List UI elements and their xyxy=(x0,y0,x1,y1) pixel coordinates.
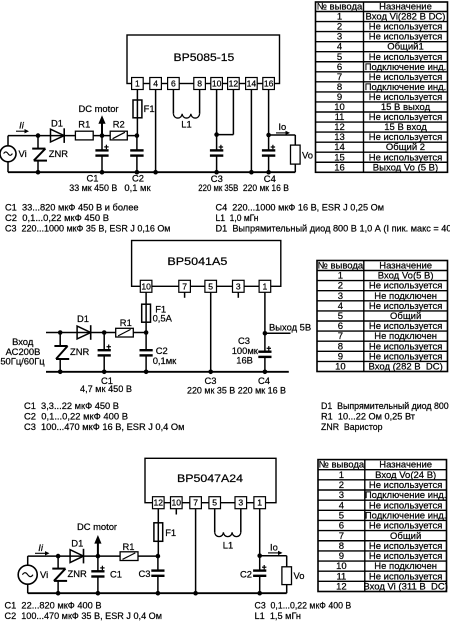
svg-text:7: 7 xyxy=(182,281,187,291)
label C1 circuit2 xyxy=(101,375,113,386)
svg-text:L1: L1 xyxy=(181,118,191,129)
svg-text:10: 10 xyxy=(335,362,346,373)
resistor R2 xyxy=(110,119,127,140)
svg-text:C1 33...820 мкФ 450 В и более: C1 33...820 мкФ 450 В и более xyxy=(5,202,139,213)
svg-text:L1 1,0 мГн: L1 1,0 мГн xyxy=(216,212,259,223)
node C1 bottom xyxy=(100,170,105,175)
node output circuit3 xyxy=(257,553,262,558)
pin 3 xyxy=(235,497,247,509)
svg-text:DC motor: DC motor xyxy=(77,521,117,532)
text ZNR spec circuit2 xyxy=(321,421,383,432)
capacitor C2 circuit2 xyxy=(140,333,153,372)
node output circuit2 xyxy=(263,331,268,336)
svg-text:Io: Io xyxy=(278,121,286,132)
resistor load Vo circuit1 xyxy=(291,145,313,172)
node output cap bottom circuit2 xyxy=(263,370,268,375)
svg-text:C1: C1 xyxy=(110,569,122,580)
text C1 spec circuit1 xyxy=(5,202,139,213)
svg-text:L1: L1 xyxy=(223,540,233,551)
pin 6 xyxy=(168,78,180,90)
wire R1 to junction xyxy=(133,332,146,334)
svg-text:1: 1 xyxy=(135,79,140,89)
svg-text:5: 5 xyxy=(208,281,213,291)
svg-text:3: 3 xyxy=(236,281,241,291)
pin 4 xyxy=(150,78,162,90)
svg-text:D1: D1 xyxy=(77,313,89,324)
wire top bus circuit1 xyxy=(8,135,137,137)
wire pin10 stub circuit3 xyxy=(175,509,177,515)
node ZNR top circuit3 xyxy=(56,554,61,559)
pin 1 xyxy=(132,78,144,90)
svg-text:0,1мк: 0,1мк xyxy=(153,355,177,366)
label C3 circuit2 xyxy=(238,335,250,346)
ac source Vi circuit3 xyxy=(18,565,48,584)
svg-text:Вход Vi (311 В DC): Вход Vi (311 В DC) xyxy=(363,582,448,593)
svg-text:10: 10 xyxy=(141,281,151,291)
label Ii input current arrow xyxy=(16,120,29,134)
svg-text:8: 8 xyxy=(197,79,202,89)
wire Vi top lead xyxy=(7,136,9,147)
svg-text:16: 16 xyxy=(264,79,274,89)
capacitor C2 xyxy=(130,136,143,173)
value C4 220mk16V xyxy=(243,182,289,193)
value C1 circuit2 xyxy=(80,383,132,394)
pin 16 xyxy=(263,78,275,90)
node ZNR bottom xyxy=(36,170,41,175)
text C1 spec circuit3 xyxy=(5,599,102,610)
pin 10 xyxy=(171,497,183,509)
node C1 bottom circuit2 xyxy=(102,370,107,375)
pin 8 xyxy=(194,78,206,90)
inductor L1 circuit3 xyxy=(215,509,241,551)
svg-text:220 мк 35В: 220 мк 35В xyxy=(198,182,238,193)
dc motor arrow xyxy=(78,103,118,135)
svg-text:R1: R1 xyxy=(78,119,90,130)
node ZNR top xyxy=(36,133,41,138)
svg-text:C2 0,1...0,22 мкФ 400 В: C2 0,1...0,22 мкФ 400 В xyxy=(24,411,128,422)
svg-text:C3: C3 xyxy=(139,568,151,579)
svg-text:ZNR: ZNR xyxy=(68,568,87,579)
capacitor C3 circuit3 xyxy=(151,556,164,593)
text C2 spec circuit1 xyxy=(5,212,109,223)
capacitor C1 xyxy=(95,136,108,173)
svg-text:F1: F1 xyxy=(144,103,155,114)
svg-text:4: 4 xyxy=(153,79,158,89)
value C2 circuit2 xyxy=(153,355,177,366)
svg-text:220 мк 16 В: 220 мк 16 В xyxy=(243,182,289,193)
svg-text:D1: D1 xyxy=(51,117,63,128)
node motor junction xyxy=(100,133,105,138)
capacitor C1 circuit3 xyxy=(91,556,104,593)
wire top bus circuit3 xyxy=(28,555,120,557)
dc motor arrow circuit3 xyxy=(77,521,117,556)
node R2-F1-C2 junction xyxy=(135,133,140,138)
node ZNR bottom circuit2 xyxy=(58,370,63,375)
pin 3 xyxy=(233,280,245,292)
pin 7 xyxy=(190,497,202,509)
text D1 spec circuit1 xyxy=(216,222,450,233)
svg-text:6: 6 xyxy=(171,79,176,89)
label output 5V circuit2 xyxy=(269,321,311,332)
svg-text:0,5А: 0,5А xyxy=(153,313,173,324)
svg-text:R1 10...22 Ом 0,25 Вт: R1 10...22 Ом 0,25 Вт xyxy=(321,411,416,422)
caption values circuit2 xyxy=(187,384,286,395)
svg-text:0,1 мк: 0,1 мк xyxy=(124,182,151,193)
svg-text:16В: 16В xyxy=(236,354,253,365)
svg-text:C2 0,1...0,22 мкФ 450 В: C2 0,1...0,22 мкФ 450 В xyxy=(5,212,109,223)
svg-text:ZNR Варистор: ZNR Варистор xyxy=(321,421,383,432)
wire top bus circuit2 left xyxy=(46,332,116,334)
wire output to load circuit3 xyxy=(260,556,287,567)
resistor R1 circuit2 xyxy=(116,317,134,337)
node pin14 ground xyxy=(249,170,254,175)
IC body BP5041A5 xyxy=(132,241,281,287)
text C3 spec circuit1 xyxy=(5,222,171,233)
wire Vi bottom lead circuit3 xyxy=(27,584,29,593)
node F1-R1-C3 junction circuit3 xyxy=(156,554,161,559)
pin 14 xyxy=(246,78,258,90)
wire bottom rail circuit2 xyxy=(46,371,289,373)
node ZNR bottom circuit3 xyxy=(56,591,61,596)
wire output stub circuit2 xyxy=(265,332,291,334)
pin 10 xyxy=(140,280,152,292)
svg-text:Vi: Vi xyxy=(40,569,48,580)
text L1 spec circuit3 xyxy=(255,610,302,621)
wire pin3 stub circuit2 xyxy=(237,292,239,298)
inductor L1 xyxy=(173,90,199,130)
svg-text:14: 14 xyxy=(247,79,257,89)
node ZNR top circuit2 xyxy=(58,330,63,335)
svg-text:3: 3 xyxy=(238,498,243,508)
svg-text:10: 10 xyxy=(212,79,222,89)
label input line3 xyxy=(0,355,45,366)
svg-text:1: 1 xyxy=(263,281,268,291)
text C4 spec circuit1 xyxy=(216,202,385,213)
svg-text:D1: D1 xyxy=(71,538,83,549)
svg-text:DC motor: DC motor xyxy=(78,103,118,114)
pin 12 xyxy=(228,78,240,90)
pin 12 xyxy=(153,497,165,509)
node pin7 ground circuit3 xyxy=(193,591,198,596)
label Io arrow circuit3 xyxy=(268,541,283,555)
table pin functions BP5085-15 xyxy=(316,2,448,174)
svg-text:4,7 мк 450 В: 4,7 мк 450 В xyxy=(80,383,132,394)
svg-text:D1 Выпрямительный диод 800 В: D1 Выпрямительный диод 800 В xyxy=(321,400,450,411)
value C3 100mk circuit2 xyxy=(232,345,259,356)
IC body BP5085-15 xyxy=(127,35,280,84)
svg-text:BP5041A5: BP5041A5 xyxy=(167,256,227,268)
svg-text:12: 12 xyxy=(154,498,164,508)
svg-text:BP5047A24: BP5047A24 xyxy=(177,473,243,485)
pin 1 xyxy=(254,497,266,509)
wire output to load xyxy=(269,135,296,145)
node C1 bottom circuit3 xyxy=(96,591,101,596)
node C2 bottom xyxy=(135,170,140,175)
wire pin1 down circuit3 xyxy=(259,509,261,556)
label Ii arrow circuit3 xyxy=(35,542,50,556)
svg-text:C4 220...1000 мкФ 16 В, ESR J: C4 220...1000 мкФ 16 В, ESR J 0,25 Ом xyxy=(216,202,385,213)
text C1 spec circuit2 xyxy=(24,400,119,411)
node output Vo circuit1 xyxy=(266,133,271,138)
svg-text:ZNR: ZNR xyxy=(70,346,89,357)
svg-text:C2 100...470 мкФ 35 В, ESR J: C2 100...470 мкФ 35 В, ESR J 0,4 Ом xyxy=(5,610,163,621)
resistor R1 circuit3 xyxy=(120,541,138,561)
svg-text:5: 5 xyxy=(212,498,217,508)
svg-text:33 мк 450 В: 33 мк 450 В xyxy=(69,182,117,193)
wire pin7 to rail circuit3 xyxy=(195,509,197,594)
label C4 xyxy=(264,173,276,184)
svg-text:C1 3,3...22 мкФ 450 В: C1 3,3...22 мкФ 450 В xyxy=(24,400,119,411)
svg-text:50Гц/60Гц: 50Гц/60Гц xyxy=(0,355,45,366)
diode D1 xyxy=(51,117,65,143)
svg-text:Вход (282 В DC): Вход (282 В DC) xyxy=(369,362,443,373)
text R1 spec circuit2 xyxy=(321,411,416,422)
svg-text:D1 Выпрямительный диод 800 В: D1 Выпрямительный диод 800 В 1,0 А (I пи… xyxy=(216,222,450,233)
varistor ZNR circuit3 xyxy=(52,556,87,593)
svg-text:Выход 5В: Выход 5В xyxy=(269,321,311,332)
table pin functions BP5047A24 xyxy=(318,460,448,593)
node C4 bottom xyxy=(266,170,271,175)
wire pin5 to rail circuit2 xyxy=(210,292,212,372)
svg-text:R1: R1 xyxy=(120,317,132,328)
pin 1 xyxy=(259,280,271,292)
pin 5 xyxy=(205,280,217,292)
caption C4 circuit2 xyxy=(258,375,270,386)
svg-text:C3 100...470 мкФ 16 В, ESR J: C3 100...470 мкФ 16 В, ESR J 0,4 Ом xyxy=(24,421,185,432)
text L1 spec circuit1 xyxy=(216,212,259,223)
pin 5 xyxy=(209,497,221,509)
node motor junction circuit3 xyxy=(96,554,101,559)
svg-text:Vo: Vo xyxy=(302,150,313,161)
varistor ZNR xyxy=(32,136,68,173)
varistor ZNR circuit2 xyxy=(54,333,89,372)
node pin4 ground xyxy=(153,170,158,175)
svg-text:R1: R1 xyxy=(123,541,135,552)
fuse F1 circuit3 xyxy=(154,509,176,556)
label C1 xyxy=(87,173,99,184)
node C2 bottom circuit3 xyxy=(257,591,262,596)
svg-text:12: 12 xyxy=(336,582,347,593)
wire Vi bottom lead xyxy=(7,161,9,172)
capacitor C4 xyxy=(262,135,275,172)
fuse F1 xyxy=(133,90,155,136)
label Io output current arrow xyxy=(276,121,290,135)
node C1 top circuit2 xyxy=(102,330,107,335)
svg-text:10: 10 xyxy=(172,498,182,508)
pin 7 xyxy=(179,280,191,292)
value C3 16V circuit2 xyxy=(236,354,253,365)
label input line2 xyxy=(6,346,41,357)
svg-text:C2: C2 xyxy=(240,569,252,580)
text C3 spec circuit2 xyxy=(24,421,185,432)
label C2 xyxy=(132,173,144,184)
ac source Vi xyxy=(0,146,27,162)
label input line1 xyxy=(12,336,34,347)
wire pin7 stub circuit2 xyxy=(184,292,186,298)
value C3 220mk35V xyxy=(198,182,238,193)
wire R1 to junction circuit3 xyxy=(138,555,158,557)
capacitor C3(100mk) circuit2 xyxy=(258,333,271,372)
svg-text:L1 1,5 мГн: L1 1,5 мГн xyxy=(255,610,302,621)
table pin functions BP5041A5 xyxy=(317,261,448,373)
wire bottom rail circuit1 xyxy=(8,171,295,173)
resistor R1 xyxy=(75,119,93,140)
wire pin10-pin12 link xyxy=(217,90,234,135)
node F1-R1-C2 junction circuit2 xyxy=(144,330,149,335)
wire pin14 to rail xyxy=(250,90,252,173)
text C2 spec circuit2 xyxy=(24,411,128,422)
text C2 spec circuit3 xyxy=(5,610,163,621)
svg-text:Io: Io xyxy=(270,541,278,552)
fuse F1 circuit2 xyxy=(142,292,173,332)
value C1 33mk450V xyxy=(69,182,117,193)
svg-text:16: 16 xyxy=(334,162,345,173)
label C1 circuit3 xyxy=(110,569,122,580)
diode D1 circuit2 xyxy=(77,313,91,340)
label C3 xyxy=(211,173,223,184)
value C2 0.1mk xyxy=(124,182,151,193)
capacitor C1 circuit2 xyxy=(98,333,111,372)
capacitor C3 xyxy=(210,135,223,173)
svg-text:C3 0,1...0,22 мкФ 400 В: C3 0,1...0,22 мкФ 400 В xyxy=(255,599,352,610)
svg-text:12: 12 xyxy=(229,79,239,89)
wire pin16 down xyxy=(268,90,270,136)
text D1 spec circuit2 xyxy=(321,400,450,411)
svg-text:Vi: Vi xyxy=(19,148,27,159)
wire pin4 to rail xyxy=(155,90,157,173)
wire Vi top lead circuit3 xyxy=(27,556,29,565)
svg-text:220 мк 35 В 220 мк 16 В: 220 мк 35 В 220 мк 16 В xyxy=(187,384,286,395)
wire bottom rail circuit3 xyxy=(28,592,287,594)
node C3 bottom circuit3 xyxy=(156,591,161,596)
label C2 circuit3 xyxy=(240,569,252,580)
resistor load Vo circuit3 xyxy=(282,567,305,593)
node pin5 ground circuit2 xyxy=(208,370,213,375)
svg-text:Выход Vo (5 В): Выход Vo (5 В) xyxy=(373,162,438,173)
node C3 bottom xyxy=(214,170,219,175)
label C2 circuit2 xyxy=(156,345,168,356)
svg-text:R2: R2 xyxy=(113,119,125,130)
node pin10 junction xyxy=(214,132,219,137)
svg-text:C3 220...1000 мкФ 35 В, ESR J: C3 220...1000 мкФ 35 В, ESR J 0,16 Ом xyxy=(5,222,171,233)
svg-text:1: 1 xyxy=(257,498,262,508)
svg-text:ZNR: ZNR xyxy=(49,148,68,159)
IC body BP5047A24 xyxy=(145,458,276,502)
svg-text:Vo: Vo xyxy=(294,570,305,581)
wire pin1 down circuit2 xyxy=(264,292,266,333)
diode D1 circuit3 xyxy=(70,538,83,564)
node C2 bottom circuit2 xyxy=(144,370,149,375)
svg-text:7: 7 xyxy=(193,498,198,508)
label C3 circuit3 xyxy=(139,568,151,579)
pin 10 xyxy=(211,78,223,90)
caption C3 circuit2 xyxy=(205,375,217,386)
svg-text:C1 22...820 мкФ 400 В: C1 22...820 мкФ 400 В xyxy=(5,599,102,610)
svg-text:F1: F1 xyxy=(165,527,176,538)
svg-text:BP5085-15: BP5085-15 xyxy=(174,52,235,64)
capacitor C2 circuit3 xyxy=(253,556,266,594)
text C3 spec circuit3 xyxy=(255,599,352,610)
